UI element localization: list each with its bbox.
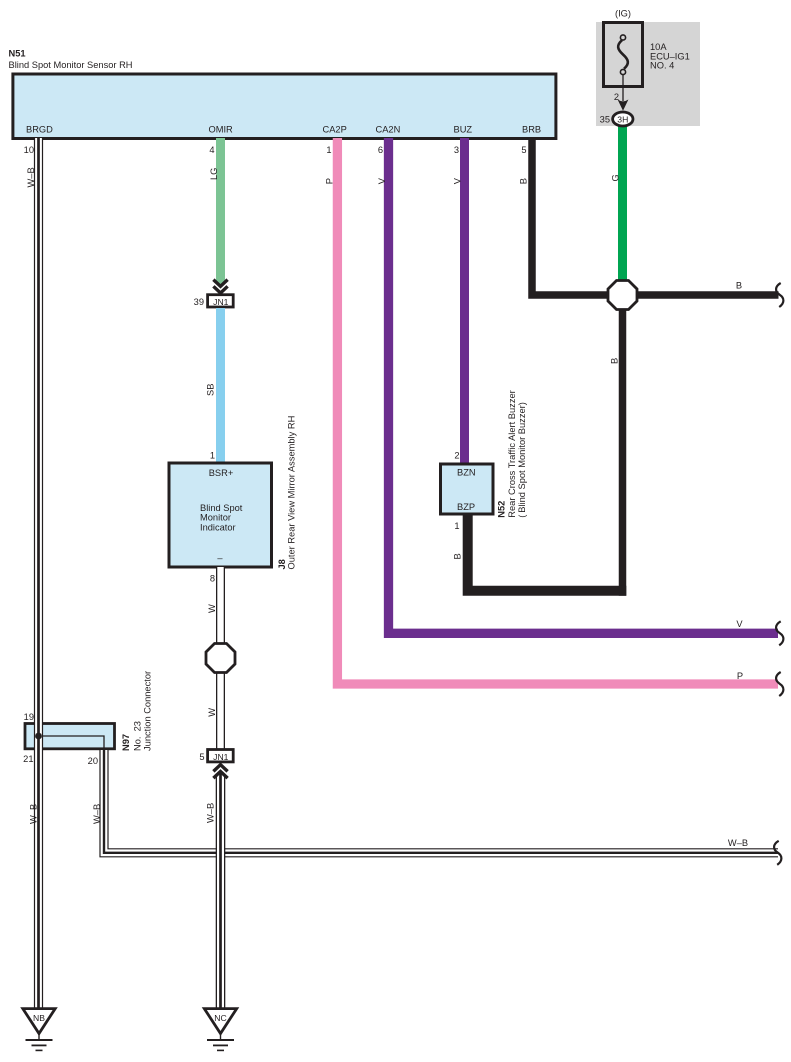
svg-text:W–B: W–B xyxy=(26,167,36,187)
wire label W-B top left xyxy=(26,167,36,187)
svg-text:N51: N51 xyxy=(9,49,26,59)
wire B from N52 BZP pin 1 to junction wire xyxy=(468,514,627,591)
wire W-B from N97 pin 20 to right edge xyxy=(104,750,778,853)
pin 1 label BZP xyxy=(454,521,459,531)
svg-text:20: 20 xyxy=(88,756,98,766)
wire label B below junction xyxy=(609,358,619,364)
pin 35 label xyxy=(600,115,610,125)
svg-text:W–B: W–B xyxy=(728,838,748,848)
svg-text:35: 35 xyxy=(600,115,610,125)
ground NC xyxy=(204,1009,236,1051)
label N51 title xyxy=(9,49,133,70)
pin 5 label xyxy=(199,752,204,762)
wire label W-B at right edge xyxy=(728,838,748,848)
wire B from N51 pin 5 BRB to junction xyxy=(532,138,612,295)
label J8 Outer Rear View Mirror Assembly RH xyxy=(277,416,297,570)
wire LG from N51 pin 4 OMIR xyxy=(216,138,225,284)
svg-text:2: 2 xyxy=(454,451,459,461)
svg-text:No. 23: No. 23 xyxy=(133,721,143,751)
label N52 Rear Cross Traffic Alert Buzzer xyxy=(497,390,528,517)
fuse 10A ECU-IG1 NO.4 xyxy=(604,23,643,102)
connector N51 Blind Spot Monitor Sensor RH xyxy=(13,74,556,139)
svg-text:Indicator: Indicator xyxy=(200,522,236,532)
wire label W upper xyxy=(207,604,217,613)
pin 2 label BZN xyxy=(454,451,459,461)
svg-text:BRGD: BRGD xyxy=(26,125,53,135)
pin 1 label BSR+ xyxy=(210,451,215,461)
wire label B (BRB) xyxy=(519,178,529,184)
svg-text:B: B xyxy=(609,358,619,364)
ground NB xyxy=(23,1009,55,1051)
wire B from junction down xyxy=(619,305,627,596)
wire B from junction to right edge xyxy=(633,291,779,299)
svg-text:B: B xyxy=(736,281,742,291)
svg-text:(IG): (IG) xyxy=(615,9,631,19)
wire P from N51 pin 1 CA2P to right edge xyxy=(337,138,778,684)
svg-text:OMIR: OMIR xyxy=(209,125,234,135)
junction octagon node xyxy=(608,281,637,310)
fuse value label xyxy=(650,42,690,71)
svg-text:V: V xyxy=(453,177,463,184)
wire label B at right edge xyxy=(736,281,742,291)
svg-text:8: 8 xyxy=(210,574,215,584)
svg-text:BUZ: BUZ xyxy=(454,125,473,135)
label N97 No. 23 Junction Connector xyxy=(121,671,152,751)
svg-text:JN1: JN1 xyxy=(213,297,229,307)
continuation squiggle W-B xyxy=(774,841,781,865)
chevron arrows up into JN1 (5) xyxy=(213,765,227,778)
wire W from noise filter to JN1 pin 5 xyxy=(216,671,225,750)
svg-text:6: 6 xyxy=(378,145,383,155)
wire W-B from JN1 pin 5 to ground NC xyxy=(216,771,226,1009)
svg-text:BZN: BZN xyxy=(457,468,476,478)
junction connector N97 box xyxy=(25,724,115,749)
noise filter octagon xyxy=(206,644,235,673)
svg-text:V: V xyxy=(377,177,387,184)
wire label B (BZP) xyxy=(453,553,463,559)
N51 pin numbers 10 4 1 6 3 5 xyxy=(24,145,527,155)
svg-text:Blind Spot: Blind Spot xyxy=(200,503,243,513)
wire label LG xyxy=(209,168,219,180)
svg-text:19: 19 xyxy=(24,712,34,722)
fuse panel background (IG) xyxy=(596,9,700,127)
junction connector JN1 pin 5 xyxy=(208,750,234,762)
junction connector JN1 pin 39 xyxy=(208,295,234,307)
svg-text:CA2N: CA2N xyxy=(376,125,401,135)
svg-text:JN1: JN1 xyxy=(213,752,229,762)
svg-text:SB: SB xyxy=(206,384,216,396)
svg-text:B: B xyxy=(453,553,463,559)
wire label V at right edge xyxy=(736,619,743,629)
wire label P at right edge xyxy=(737,671,743,681)
continuation squiggle B xyxy=(776,283,783,307)
svg-text:Monitor: Monitor xyxy=(200,513,231,523)
svg-text:CA2P: CA2P xyxy=(323,125,347,135)
svg-text:BSR+: BSR+ xyxy=(209,468,234,478)
svg-text:LG: LG xyxy=(209,168,219,180)
svg-text:V: V xyxy=(736,619,743,629)
svg-text:NB: NB xyxy=(33,1013,45,1023)
svg-text:( Blind Spot Monitor Buzzer): ( Blind Spot Monitor Buzzer) xyxy=(517,402,527,518)
indicator connector J8 BSR+ box xyxy=(169,463,272,567)
wire V from N51 pin 3 BUZ to N52 BZN xyxy=(460,138,469,464)
continuation squiggle P xyxy=(776,672,783,696)
arrow into connector 3H xyxy=(618,100,629,111)
node junction dot in N97 xyxy=(35,733,42,740)
svg-text:W–B: W–B xyxy=(206,803,216,823)
svg-text:BRB: BRB xyxy=(522,125,541,135)
svg-text:N52: N52 xyxy=(497,501,507,518)
svg-text:10: 10 xyxy=(24,145,34,155)
wire label W-B left bottom xyxy=(28,804,38,824)
svg-text:NC: NC xyxy=(214,1013,226,1023)
wire W-B from N51 pin 10 to ground NB xyxy=(34,138,43,1008)
svg-text:Blind Spot Monitor Sensor RH: Blind Spot Monitor Sensor RH xyxy=(9,60,133,70)
wire G from fuse connector 3H to junction xyxy=(618,125,627,283)
wire label W-B pin 20 xyxy=(92,804,102,824)
wire W from indicator pin 8 to noise filter xyxy=(216,567,225,645)
svg-text:Rear Cross Traffic Alert Buzze: Rear Cross Traffic Alert Buzzer xyxy=(507,390,517,517)
chevron arrows into JN1 (39) xyxy=(213,280,227,293)
svg-text:1: 1 xyxy=(326,145,331,155)
svg-text:P: P xyxy=(325,178,335,184)
fuse pin 2 label xyxy=(614,92,619,102)
wire label P xyxy=(325,178,335,184)
svg-text:39: 39 xyxy=(194,297,204,307)
wire label G xyxy=(611,174,621,181)
svg-text:Junction Connector: Junction Connector xyxy=(142,671,152,751)
svg-text:J8: J8 xyxy=(277,559,287,569)
wire label SB xyxy=(206,384,216,396)
svg-text:3H: 3H xyxy=(617,114,628,124)
svg-text:B: B xyxy=(519,178,529,184)
svg-text:3: 3 xyxy=(454,145,459,155)
svg-text:BZP: BZP xyxy=(457,502,475,512)
svg-text:1: 1 xyxy=(210,451,215,461)
wire label V (CA2N) xyxy=(377,177,387,184)
svg-text:NO. 4: NO. 4 xyxy=(650,61,674,71)
svg-text:W–B: W–B xyxy=(92,804,102,824)
svg-text:–: – xyxy=(217,553,223,563)
svg-text:W–B: W–B xyxy=(28,804,38,824)
svg-text:5: 5 xyxy=(521,145,526,155)
connector 3H oval xyxy=(613,112,633,126)
wire SB from JN1 to indicator pin 1 xyxy=(216,308,225,463)
N97 pin numbers 19 21 20 xyxy=(23,712,98,766)
wire V from N51 pin 6 CA2N to right edge xyxy=(389,138,779,633)
wire label W lower xyxy=(207,708,217,717)
svg-text:G: G xyxy=(611,174,621,181)
wire label V (BUZ) xyxy=(453,177,463,184)
svg-text:N97: N97 xyxy=(121,734,131,751)
svg-text:Outer Rear View Mirror Assembl: Outer Rear View Mirror Assembly RH xyxy=(287,416,297,570)
svg-text:P: P xyxy=(737,671,743,681)
pin 39 label xyxy=(194,297,204,307)
svg-text:4: 4 xyxy=(209,145,214,155)
svg-text:W: W xyxy=(207,708,217,717)
wire label W-B (JN1 to NC) xyxy=(206,803,216,823)
svg-text:21: 21 xyxy=(23,754,33,764)
svg-text:W: W xyxy=(207,604,217,613)
pin 8 label xyxy=(210,574,215,584)
svg-text:5: 5 xyxy=(199,752,204,762)
svg-text:1: 1 xyxy=(454,521,459,531)
N97 internal link from node to pin 20 xyxy=(39,736,104,750)
buzzer connector N52 box xyxy=(441,464,494,514)
continuation squiggle V xyxy=(776,621,783,645)
